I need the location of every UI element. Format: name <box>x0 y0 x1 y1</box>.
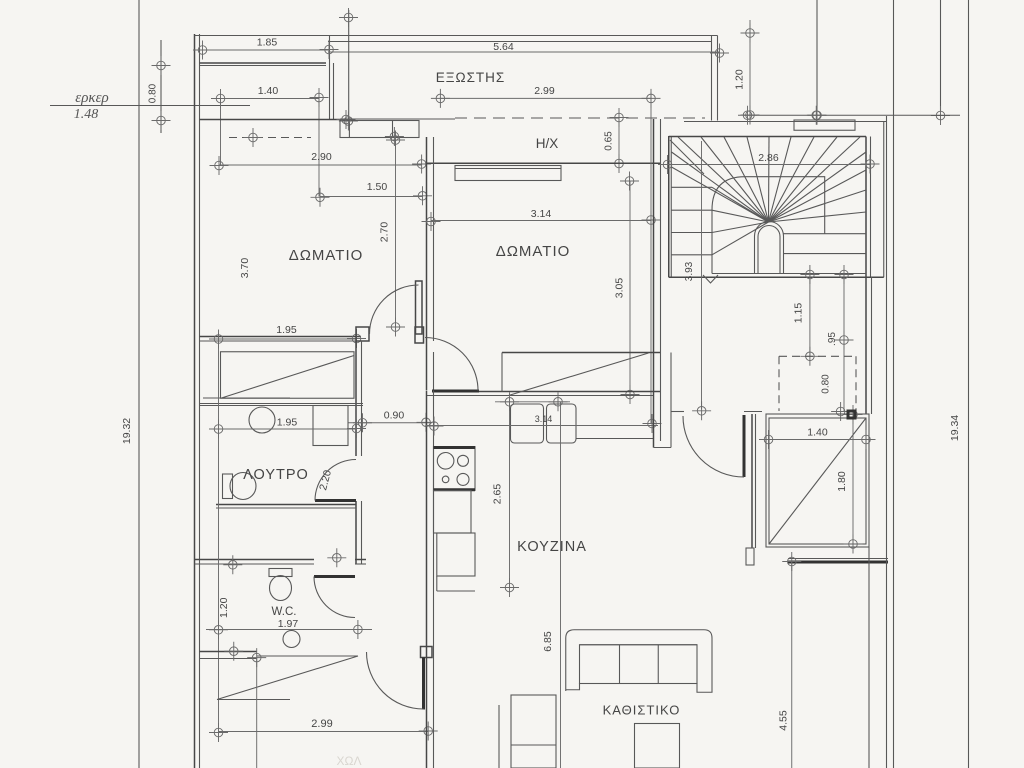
marker balcony door <box>385 127 404 146</box>
dim 0.80 lower line <box>843 340 845 412</box>
dim 1.40 shaft marker left <box>759 430 778 449</box>
wall kitchen east outer <box>653 353 655 448</box>
dim 3.14 marker left <box>422 212 441 231</box>
wall building west outer <box>194 34 196 768</box>
svg-text:2.90: 2.90 <box>311 151 332 163</box>
grid line x940 top <box>940 0 942 112</box>
svg-text:ΚΑΘΙΣΤΙΚΟ: ΚΑΘΙΣΤΙΚΟ <box>603 703 681 718</box>
dim 0.80 left marker bottom <box>152 111 171 130</box>
sofa divider 2 <box>657 645 659 684</box>
wall stair east below outer <box>871 277 873 414</box>
wall corridor west outer <box>355 341 357 456</box>
bathroom door swing <box>315 460 356 501</box>
wc toilet bowl <box>270 576 292 601</box>
dim 2.90 marker left <box>210 156 229 175</box>
dim 0.65 line <box>618 118 620 164</box>
bathroom toilet bowl <box>230 473 256 500</box>
svg-text:1.95: 1.95 <box>276 324 297 336</box>
bay east wall inner <box>333 63 335 120</box>
svg-text:3.14: 3.14 <box>531 208 552 220</box>
wall bedroom1 north <box>200 119 347 121</box>
bathtub outline <box>221 352 355 399</box>
balcony door inner jamb right <box>392 121 394 138</box>
marker x651 bottom <box>643 414 662 433</box>
wall bathroom shelf inner <box>200 405 364 407</box>
dim 2.99 top line <box>440 97 651 99</box>
kitchen door swing <box>425 338 478 391</box>
extension line x220 <box>220 99 222 166</box>
svg-text:ΚΟΥΖΙΝΑ: ΚΟΥΖΙΝΑ <box>517 539 587 555</box>
svg-text:1.85: 1.85 <box>257 37 278 49</box>
balcony east wall outer <box>717 36 719 121</box>
extension line x349 <box>348 10 350 121</box>
entrance door frame <box>421 647 433 658</box>
balcony east wall inner <box>711 36 713 121</box>
svg-text:W.C.: W.C. <box>272 606 297 618</box>
dim 1.20 balcony marker top <box>741 24 760 43</box>
svg-text:2.86: 2.86 <box>758 152 779 164</box>
dark jamb mark <box>848 411 855 418</box>
svg-text:1.97: 1.97 <box>278 618 299 630</box>
wall bedroom2 north <box>427 162 661 164</box>
dim 1.95 bath line <box>219 428 357 430</box>
bedroom1 door jamb right <box>415 327 424 343</box>
dim 1.97 marker left <box>209 620 228 639</box>
kitchen lower cabinet edge <box>498 705 500 768</box>
dim 4.55 marker top <box>782 552 801 571</box>
marker wc wall a <box>327 548 346 567</box>
marker stair top a <box>738 106 757 125</box>
svg-text:5.64: 5.64 <box>493 41 514 53</box>
bedroom1 door swing <box>370 285 419 334</box>
extension line x651 <box>650 92 652 424</box>
dim 3.05 marker top <box>620 172 639 191</box>
dim 1.85 line <box>203 49 330 51</box>
dim 2.99 bottom marker left <box>209 723 228 742</box>
erker leader line <box>50 105 250 107</box>
dim 4.55 line <box>791 562 793 768</box>
extension line x218 <box>218 333 220 740</box>
dashed recess top <box>779 355 854 357</box>
dim 1.80 marker bottom <box>844 535 863 554</box>
radiator inner line <box>455 168 561 170</box>
dim 2.70 line <box>395 140 397 327</box>
hall window sill bottom <box>217 699 290 701</box>
svg-text:1.50: 1.50 <box>367 181 388 193</box>
wc floor sink <box>283 631 300 648</box>
wall hall south inner <box>200 658 258 660</box>
wall stair east below <box>865 277 867 414</box>
stair walk line <box>712 177 825 274</box>
stair east wall inner2 <box>870 137 872 278</box>
marker wc wall b <box>223 555 242 574</box>
dim 0.80 lower marker <box>831 402 850 421</box>
svg-text:0.80: 0.80 <box>821 374 832 394</box>
wc door swing <box>314 577 355 618</box>
svg-text:19.34: 19.34 <box>949 415 961 441</box>
property line right outer <box>968 0 970 768</box>
dim 1.95 bedroom marker right <box>347 329 366 348</box>
marker x349 top <box>339 8 358 27</box>
wall bedroom1 south outer <box>200 336 362 338</box>
dim 2.99 top marker right <box>642 89 661 108</box>
svg-text:ΛΟΥΤΡΟ: ΛΟΥΤΡΟ <box>243 467 309 483</box>
wall east lower a <box>868 547 870 768</box>
marker landing b <box>835 265 854 284</box>
wall hall south outer <box>200 651 258 653</box>
svg-text:0.65: 0.65 <box>604 131 615 151</box>
svg-text:1.40: 1.40 <box>807 427 828 439</box>
kitchen dim line y424 <box>426 425 658 427</box>
marker x940 <box>931 106 950 125</box>
dim 1.97 marker right <box>348 620 367 639</box>
bay lintel dashed <box>229 137 311 139</box>
svg-text:ΕΞΩΣΤΗΣ: ΕΞΩΣΤΗΣ <box>436 70 506 85</box>
wall corridor west lower outer <box>355 501 357 564</box>
dim 1.97 line <box>206 629 372 631</box>
balcony bottom dashed <box>455 117 705 119</box>
svg-text:1.15: 1.15 <box>793 303 805 324</box>
svg-text:2.99: 2.99 <box>534 85 555 97</box>
entrance door swing <box>367 652 424 709</box>
stair west wall outer <box>668 136 670 277</box>
wall corridor east upper inner <box>433 352 435 390</box>
stair fan treads <box>672 137 867 255</box>
dim 1.15 marker bottom <box>800 347 819 366</box>
coffee table <box>635 724 680 768</box>
dim 0.90 line <box>348 422 432 424</box>
wall bathroom south inner <box>216 507 356 509</box>
bay north wall inner <box>200 65 327 67</box>
svg-text:6.85: 6.85 <box>542 631 554 652</box>
svg-text:3.14: 3.14 <box>535 414 553 424</box>
marker y424 a <box>425 417 444 436</box>
wall between bedrooms east face <box>433 137 435 341</box>
wall wc north outer <box>195 559 315 561</box>
kitchen sink marker right <box>549 392 568 411</box>
dim 1.80 marker top <box>844 405 863 424</box>
extension line x319 <box>318 98 320 197</box>
dim 1.95 bath marker right <box>347 419 366 438</box>
bathroom box column <box>313 406 348 446</box>
kitchen counter edge <box>576 438 653 440</box>
bathtub diagonal <box>222 356 355 399</box>
svg-text:3.70: 3.70 <box>239 258 251 279</box>
dim 0.65 marker top <box>610 108 629 127</box>
svg-text:1.20: 1.20 <box>218 597 230 618</box>
wall wc north right outer <box>355 559 366 561</box>
wall wc north right inner <box>355 563 366 565</box>
property line left <box>138 0 140 768</box>
stair newel arch outer <box>755 222 784 274</box>
hall window sill top <box>257 655 358 657</box>
bedroom1 door leaf <box>416 281 423 334</box>
svg-text:1.48: 1.48 <box>74 107 99 122</box>
wall se dark <box>788 561 888 564</box>
stair corner fillet <box>670 140 704 174</box>
svg-text:3.05: 3.05 <box>614 278 626 299</box>
dim 0.80 left marker top <box>152 56 171 75</box>
svg-text:0.80: 0.80 <box>148 83 159 103</box>
dim 1.50 marker right <box>413 186 432 205</box>
cooktop top edge <box>434 446 476 449</box>
dim 1.80 line <box>852 414 854 544</box>
wall bedroom2 east inner <box>660 119 662 353</box>
sofa back line <box>580 644 698 646</box>
wall under balcony solid <box>340 118 455 120</box>
wall kitchen west outer <box>426 391 428 768</box>
dim 1.40 line <box>221 98 320 100</box>
bedroom1 door jamb left <box>356 327 369 341</box>
svg-text:H/X: H/X <box>536 136 559 151</box>
kitchen sink basin left <box>511 404 544 443</box>
svg-text:.95: .95 <box>827 332 838 346</box>
kitchen cabinet lip <box>436 576 438 591</box>
dim 2.99 bottom marker right <box>419 722 438 741</box>
burner big <box>437 453 454 470</box>
dim 1.85 marker right <box>320 40 339 59</box>
dim 1.85 marker left <box>193 41 212 60</box>
kitchen sink dim line <box>495 401 570 403</box>
marker hall window <box>247 648 266 667</box>
wall between bedrooms west face <box>426 137 428 341</box>
svg-text:ερκερ: ερκερ <box>75 90 108 106</box>
sofa outline <box>566 630 712 693</box>
svg-text:0.90: 0.90 <box>384 410 405 422</box>
kitchen cabinet b <box>437 533 475 576</box>
stair east wall inner <box>865 137 867 278</box>
dim 1.95 bedroom line <box>219 338 357 340</box>
burner medium se <box>457 473 469 485</box>
dim 1.95 bedroom marker left <box>209 330 228 349</box>
dim 2.90 marker right <box>412 155 431 174</box>
radiator box H/X <box>455 166 561 181</box>
kitchen sink basin right <box>547 404 577 443</box>
entrance door leaf <box>422 658 425 710</box>
cooktop bottom edge <box>434 488 476 491</box>
wall kitchen east inner <box>660 353 662 442</box>
wall corridor west lower inner <box>361 501 363 564</box>
wall east lower b <box>886 116 888 768</box>
dim 2.86 marker left <box>658 155 677 174</box>
dim 1.15 line <box>809 275 811 357</box>
marker x817 <box>808 106 827 125</box>
stair right treads <box>784 234 867 254</box>
bathtub inner end <box>203 397 290 399</box>
balcony west edge <box>329 36 331 120</box>
dim 1.40 marker left <box>211 89 230 108</box>
stair east wall outer <box>883 122 885 278</box>
wall kitchen east outer2 <box>670 353 672 448</box>
cooktop box <box>434 447 476 491</box>
marker bay right <box>337 110 356 129</box>
balcony door inner jamb left <box>348 121 350 138</box>
dim 0.90 marker right <box>417 413 436 432</box>
svg-text:4.55: 4.55 <box>778 710 790 731</box>
svg-text:1.20: 1.20 <box>734 69 746 90</box>
marker x349 bottom <box>339 112 358 131</box>
kitchen cabinet a <box>434 490 472 533</box>
wc door leaf <box>314 575 355 578</box>
svg-text:1.80: 1.80 <box>836 471 848 492</box>
dim 1.40 shaft marker right <box>857 430 876 449</box>
stair newel arch inner <box>758 226 780 274</box>
dim 2.70 marker bottom <box>386 318 405 337</box>
apartment door leaf <box>743 415 746 477</box>
dim 2.86 marker right <box>861 155 880 174</box>
landing south wall left <box>671 411 684 413</box>
stair outer top line <box>684 121 887 123</box>
wall bathroom south outer <box>216 504 356 506</box>
bedroom2 window ledge left <box>501 353 503 392</box>
svg-text:1.40: 1.40 <box>258 85 279 97</box>
sofa seat rect <box>580 645 698 684</box>
dim 0.90 marker left <box>353 413 372 432</box>
bathroom sink circle <box>249 407 275 433</box>
kitchen door leaf <box>432 390 479 393</box>
shaft diagonal <box>769 418 866 544</box>
grid line x817 top <box>816 0 818 112</box>
dim 1.95 bath marker left <box>209 420 228 439</box>
wall bedroom2 east outer <box>653 119 655 353</box>
burner medium ne <box>458 455 469 466</box>
dim 5.64 marker right <box>710 44 729 63</box>
shaft outer box <box>766 414 869 547</box>
svg-text:2.65: 2.65 <box>492 484 504 505</box>
dim 0.65 marker bottom <box>610 154 629 173</box>
stair bottom inner line <box>712 273 866 275</box>
dim 2.99 bottom line <box>219 731 429 733</box>
door jamb wall stub inner <box>755 414 757 548</box>
stair top wall line <box>744 114 960 116</box>
landing south wall right <box>744 411 762 413</box>
kitchen east counter return <box>654 447 672 449</box>
wall corridor east upper outer <box>426 341 428 390</box>
wall se thin <box>788 558 888 560</box>
svg-text:19.32: 19.32 <box>121 418 133 444</box>
dim 0.80 left line <box>160 40 162 133</box>
dim 1.50 marker left <box>311 188 330 207</box>
dim 0.95 marker bottom <box>835 331 854 350</box>
dim 2.70 marker top <box>386 131 405 150</box>
marker lintel <box>244 128 263 147</box>
dim 3.05 marker bottom <box>621 385 640 404</box>
dim 5.64 line <box>328 51 720 53</box>
bedroom2 south wall <box>502 352 661 354</box>
kitchen lower cabinet <box>511 695 556 768</box>
dim 3.93 marker bottom <box>692 401 711 420</box>
marker landing a <box>800 265 819 284</box>
stair direction arrow <box>703 275 718 283</box>
dim 2.65 line <box>509 402 511 588</box>
shaft small stub <box>746 548 754 565</box>
dim 3.05 line <box>629 181 631 395</box>
balcony slab top outer <box>195 35 718 37</box>
svg-text:2.70: 2.70 <box>379 222 391 243</box>
dim 1.50 line <box>320 196 423 198</box>
dim 3.14 marker right <box>642 211 661 230</box>
wall building west inner <box>199 34 201 768</box>
balcony slab top inner <box>328 41 712 43</box>
wall kitchen north outer <box>434 391 661 393</box>
dim 1.20 balcony line <box>749 20 751 115</box>
wall kitchen north inner <box>427 395 654 397</box>
wall corridor west inner <box>361 341 363 456</box>
svg-text:ΔΩΜΑΤΙΟ: ΔΩΜΑΤΙΟ <box>496 243 571 260</box>
dim 2.99 top marker left <box>431 89 450 108</box>
wc toilet tank <box>269 569 292 577</box>
stair landing box top <box>794 120 855 130</box>
shaft inner box <box>769 418 866 544</box>
dim 3.93 line <box>701 141 703 409</box>
stair bottom landing line <box>669 276 884 278</box>
hall window extension <box>256 658 258 768</box>
bay north wall outer <box>200 62 327 64</box>
bedroom2 window diagonal <box>509 353 649 396</box>
dim 2.65 marker bottom <box>500 578 519 597</box>
stair west wall inner <box>670 136 672 277</box>
svg-text:ΔΩΜΑΤΙΟ: ΔΩΜΑΤΙΟ <box>289 247 364 264</box>
svg-text:2.99: 2.99 <box>311 718 332 730</box>
stair north wall <box>669 136 866 138</box>
kitchen lower cabinet divider <box>511 744 556 746</box>
bathroom toilet tank <box>223 474 233 499</box>
hall window diagonal <box>217 656 358 700</box>
dim 1.20 balcony marker bottom <box>741 106 760 125</box>
wall wc north inner <box>195 563 315 565</box>
burner small <box>442 476 449 483</box>
wall kitchen west inner <box>433 391 435 768</box>
dim 1.40 shaft line <box>766 439 869 441</box>
dim 2.86 line <box>668 164 871 166</box>
svg-text:1.95: 1.95 <box>277 417 298 429</box>
dim 3.14 line <box>431 220 651 222</box>
wall bedroom1 south inner <box>200 340 357 342</box>
svg-text:3.93: 3.93 <box>684 261 695 281</box>
property line right inner <box>893 0 895 768</box>
sofa divider 1 <box>619 645 621 684</box>
dim 0.95 line <box>843 275 845 341</box>
dim 1.40 marker right <box>310 88 329 107</box>
dim 6.85 line <box>560 402 562 768</box>
bathroom door leaf <box>315 499 356 502</box>
dim 2.90 line <box>219 164 422 166</box>
marker stair top b <box>807 106 826 125</box>
wall bathroom shelf outer <box>200 403 364 405</box>
dashed recess east <box>855 356 857 411</box>
stair left treads <box>672 187 713 255</box>
svg-text:ΧΩΛ: ΧΩΛ <box>337 754 362 768</box>
balcony door sill box <box>340 121 419 138</box>
kitchen sink marker left <box>500 392 519 411</box>
dashed recess west <box>778 356 780 411</box>
marker hall wall <box>224 642 243 661</box>
door jamb wall stub outer <box>751 414 753 548</box>
apartment door swing <box>683 416 744 477</box>
